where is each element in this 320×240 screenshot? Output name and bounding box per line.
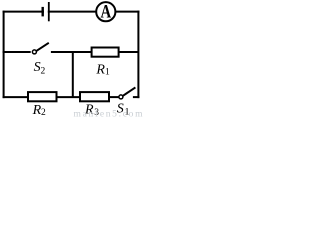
resistor R2 (box) (28, 92, 57, 101)
wire: bottom row left segment (3, 96, 28, 98)
wire: bottom right stub (133, 96, 140, 98)
wire: bottom row segment to switch S1 (109, 96, 119, 98)
svg-text:1: 1 (105, 68, 110, 78)
wire: left vertical (3, 11, 5, 99)
svg-text:R: R (95, 63, 105, 78)
svg-text:2: 2 (41, 108, 46, 118)
battery gap (white) (44, 10, 48, 14)
svg-text:A: A (101, 1, 112, 22)
switch S1 pivot (119, 95, 123, 99)
background (0, 0, 143, 118)
battery cell: short thick plate (negative) (42, 7, 44, 17)
switch S2 pivot (32, 50, 36, 54)
switch S1 blade (123, 87, 135, 95)
ammeter A (circle) (96, 2, 115, 21)
svg-text:2: 2 (41, 67, 46, 77)
wire: right vertical (137, 11, 139, 99)
battery cell: long thin plate (positive) (48, 2, 50, 21)
wire: middle row center segment (51, 51, 92, 53)
switch S2 blade (36, 43, 48, 51)
wire: middle row right segment (119, 51, 139, 53)
wire: bottom row segment between R2 and R3 (57, 96, 81, 98)
resistor R3 (box) (80, 92, 109, 101)
wire: middle vertical branch (72, 51, 74, 98)
wire: top horizontal (3, 11, 140, 13)
svg-text:manfen5.com: manfen5.com (74, 109, 144, 118)
resistor R1 (box) (92, 48, 119, 57)
wire: middle row left segment (to switch S2) (3, 51, 31, 53)
